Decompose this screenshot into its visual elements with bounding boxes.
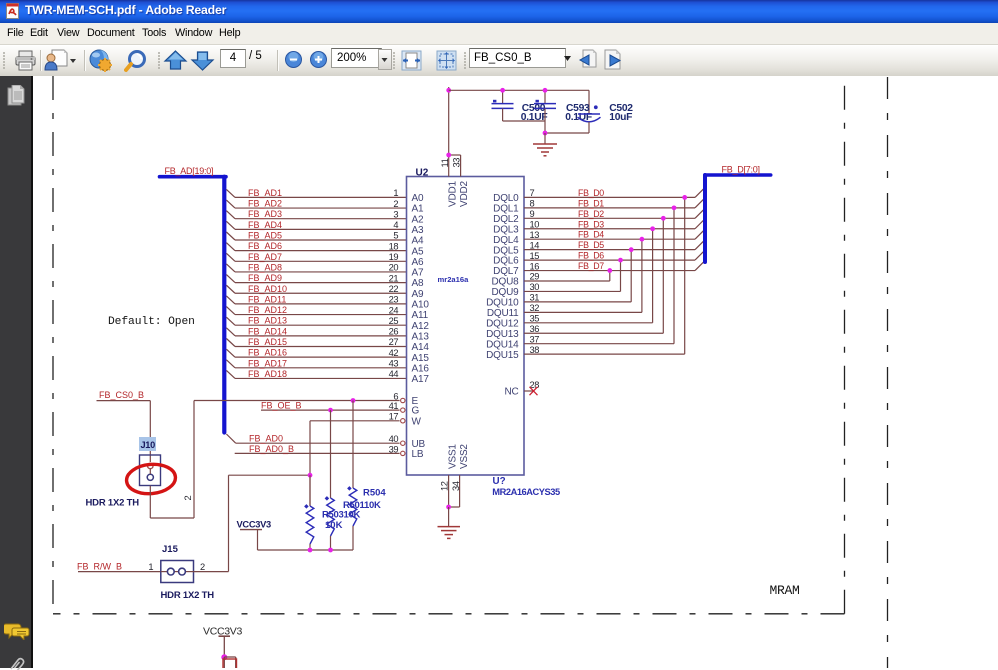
pin number 13 <box>530 230 540 240</box>
capacitor C593 <box>534 90 556 121</box>
pin number 43 <box>389 359 399 369</box>
net label FB_D[7:0] <box>722 164 760 174</box>
svg-text:VDD2: VDD2 <box>459 180 470 207</box>
svg-text:DQL1: DQL1 <box>493 203 519 214</box>
pin name A2 <box>412 214 424 225</box>
wire FB_AD15 bus tap <box>226 339 235 347</box>
wire FB_AD12 bus tap <box>226 307 235 315</box>
svg-text:A3: A3 <box>412 225 424 236</box>
wire FB_R/W_B <box>78 571 161 573</box>
wire W net <box>310 420 400 422</box>
wire FB_AD10 bus tap <box>226 285 235 293</box>
pin name A13 <box>412 331 430 342</box>
pin number 19 <box>389 252 399 262</box>
net label FB_AD10 <box>248 284 287 294</box>
wire FB_AD1 <box>235 196 407 198</box>
no-connect X <box>530 387 538 395</box>
svg-text:DQL4: DQL4 <box>493 235 519 246</box>
svg-text:FB_AD0_B: FB_AD0_B <box>249 444 294 454</box>
svg-text:A5: A5 <box>412 246 424 257</box>
junction cap gnd <box>543 131 548 136</box>
wire FB_AD10 <box>235 292 407 294</box>
wire DQU10 <box>524 301 631 303</box>
pin number 17 <box>389 412 399 422</box>
pin name W <box>412 416 422 427</box>
net label FB_D1 <box>578 198 604 208</box>
pin name DQU10 <box>486 298 519 309</box>
svg-text:W: W <box>412 416 422 427</box>
svg-text:5: 5 <box>393 231 398 241</box>
wire R501 bottom <box>330 536 332 550</box>
wire DQU13 riser <box>662 218 664 333</box>
net label FB_CS0_B <box>99 390 144 400</box>
pin name A8 <box>412 278 424 289</box>
svg-text:25: 25 <box>389 316 399 326</box>
wire FB_D1 bus tap <box>695 198 705 208</box>
pin number 38 <box>530 345 540 355</box>
wire FB_D6 <box>524 259 695 261</box>
wire FB_AD13 bus tap <box>226 317 235 325</box>
svg-text:A0: A0 <box>412 193 424 204</box>
refdes U? <box>493 476 506 487</box>
svg-text:34: 34 <box>451 481 461 491</box>
wire DQU13 <box>524 332 663 334</box>
wire FB_AD4 <box>235 228 407 230</box>
svg-text:LB: LB <box>412 449 424 460</box>
svg-text:G: G <box>412 406 420 417</box>
pin 34 stub VSS2 <box>449 475 460 507</box>
pin name DQU11 <box>487 308 519 319</box>
svg-text:FB_AD0: FB_AD0 <box>249 434 283 444</box>
junction W net <box>308 473 313 478</box>
net label FB_D2 <box>578 209 604 219</box>
sidebar <box>0 76 33 668</box>
svg-text:FB_D6: FB_D6 <box>578 251 604 261</box>
svg-text:44: 44 <box>389 369 399 379</box>
svg-text:1: 1 <box>393 188 398 198</box>
pin number 5 <box>393 231 398 241</box>
net label FB_AD5 <box>248 231 282 241</box>
svg-text:FB_AD9: FB_AD9 <box>248 273 282 283</box>
svg-text:43: 43 <box>389 359 399 369</box>
capacitor C500 <box>492 90 514 121</box>
svg-text:A15: A15 <box>412 353 430 364</box>
wire FB_AD7 bus tap <box>226 253 235 261</box>
connector J10 body <box>140 455 161 486</box>
pin number 20 <box>389 263 399 273</box>
wire FB_AD8 bus tap <box>226 264 235 272</box>
svg-text:FB_AD2: FB_AD2 <box>248 199 282 209</box>
pin number 6 <box>393 391 398 401</box>
pin 33 stub VDD2 <box>449 155 461 177</box>
pin number 33 <box>452 158 462 168</box>
pin name A9 <box>412 289 424 300</box>
pin number 14 <box>530 240 540 250</box>
svg-text:DQU8: DQU8 <box>492 277 520 288</box>
junction VSS <box>446 505 451 510</box>
wire FB_AD8 <box>235 271 407 273</box>
svg-text:16: 16 <box>530 261 540 271</box>
svg-text:33: 33 <box>452 158 462 168</box>
pin name NC <box>504 387 518 398</box>
junction FB_D6 <box>618 258 623 263</box>
svg-text:FB_AD1: FB_AD1 <box>248 188 282 198</box>
pin number 22 <box>389 284 399 294</box>
pin name DQU15 <box>486 350 519 361</box>
svg-text:FB_AD14: FB_AD14 <box>248 326 287 336</box>
wire DQU8 <box>524 280 610 282</box>
pin name VSS1 <box>447 444 458 469</box>
junction FB_D4 <box>640 237 645 242</box>
pin number 2 <box>393 199 398 209</box>
svg-text:42: 42 <box>389 348 399 358</box>
part name mr2a16a <box>438 275 470 284</box>
pin number 4 <box>393 220 398 230</box>
title MRAM <box>770 583 800 598</box>
svg-text:VSS1: VSS1 <box>447 444 458 469</box>
wire R504 bottom <box>352 526 354 550</box>
svg-text:FB_AD18: FB_AD18 <box>248 369 287 379</box>
wire FB_AD1 bus tap <box>226 189 235 197</box>
net label FB_AD15 <box>248 337 287 347</box>
pin name A16 <box>412 363 430 374</box>
net label FB_AD6 <box>248 241 282 251</box>
wire FB_AD2 <box>235 207 407 209</box>
svg-text:Default: Open: Default: Open <box>108 316 195 328</box>
junction FB_D2 <box>661 216 666 221</box>
wire FB_AD0 bus tap <box>226 434 235 443</box>
wire DQU10 riser <box>630 250 632 302</box>
pin number 25 <box>389 316 399 326</box>
wire FB_D1 <box>524 207 695 209</box>
wire to ground <box>448 507 450 526</box>
wire DQU15 riser <box>684 197 686 354</box>
svg-text:32: 32 <box>530 303 540 313</box>
pin bubble G <box>401 408 405 412</box>
wire J10 to E <box>150 401 194 519</box>
wire DQU15 <box>524 353 685 355</box>
pin name G <box>412 406 420 417</box>
title bar <box>0 0 998 23</box>
label C593 <box>565 103 597 123</box>
svg-text:21: 21 <box>389 273 399 283</box>
net label FB_D0 <box>578 188 604 198</box>
svg-text:2: 2 <box>183 495 193 500</box>
pin name A12 <box>412 321 430 332</box>
wire cap rail <box>449 90 589 114</box>
pin name UB <box>412 439 426 450</box>
wire DQU9 riser <box>620 260 622 291</box>
sheet border right <box>844 80 846 614</box>
wire pullup rail <box>258 549 354 551</box>
wire FB_AD0 <box>236 442 400 444</box>
net label FB_D6 <box>578 251 604 261</box>
wire E net <box>194 400 400 402</box>
wire FB_AD3 bus tap <box>226 211 235 219</box>
svg-text:35: 35 <box>530 314 540 324</box>
net label FB_D4 <box>578 230 604 240</box>
pin number 11 <box>440 158 450 167</box>
pin number 12 <box>440 481 450 491</box>
wire FB_D0 <box>524 196 695 198</box>
svg-text:9: 9 <box>530 209 535 219</box>
svg-text:DQU11: DQU11 <box>487 308 519 319</box>
wire FB_AD5 bus tap <box>226 232 235 240</box>
svg-text:1: 1 <box>148 562 153 572</box>
pin number 9 <box>530 209 535 219</box>
wire FB_AD16 <box>235 356 407 358</box>
pin number 2 J15 <box>200 562 205 572</box>
svg-text:31: 31 <box>530 293 540 303</box>
pin number 29 <box>530 272 540 282</box>
svg-text:DQL2: DQL2 <box>493 214 519 225</box>
net label FB_AD16 <box>248 348 287 358</box>
wire FB_AD9 <box>235 282 407 284</box>
svg-text:A10: A10 <box>412 300 430 311</box>
pin bubble W <box>401 419 405 423</box>
svg-text:FB_AD11: FB_AD11 <box>248 294 286 304</box>
pin name LB <box>412 449 424 460</box>
wire FB_AD0_B <box>235 452 400 454</box>
svg-text:FB_D3: FB_D3 <box>578 219 604 229</box>
wire J15 to W <box>194 475 311 571</box>
pin name A5 <box>412 246 424 257</box>
label R501 10K <box>343 500 381 511</box>
wire FB_AD18 <box>235 377 407 379</box>
wire FB_AD18 bus tap <box>226 370 235 378</box>
wire cap bottom rail <box>503 121 589 133</box>
label C502 <box>609 103 633 123</box>
pin name VDD1 <box>447 180 458 207</box>
svg-text:FB_AD3: FB_AD3 <box>248 209 282 219</box>
wire R503 bottom <box>309 544 311 550</box>
wire R501 riser <box>330 410 332 498</box>
pin number 32 <box>530 303 540 313</box>
wire FB_AD17 bus tap <box>226 360 235 368</box>
net label FB_R/W_B <box>77 561 122 571</box>
svg-text:FB_AD6: FB_AD6 <box>248 241 282 251</box>
connector J15 body <box>161 561 194 583</box>
annotation red ellipse <box>125 462 176 495</box>
junction FB_D3 <box>650 226 655 231</box>
pin number 41 <box>389 401 399 411</box>
net label FB_AD9 <box>248 273 282 283</box>
pin number 3 <box>393 209 398 219</box>
junction FB_D1 <box>672 205 677 210</box>
net label FB_AD18 <box>248 369 287 379</box>
part number MR2A16ACYS35 <box>492 487 560 497</box>
svg-text:U2: U2 <box>416 167 429 178</box>
wire FB_AD14 <box>235 335 407 337</box>
label HDR 1X2 TH J10 <box>86 498 140 509</box>
svg-text:FB_AD7: FB_AD7 <box>248 252 282 262</box>
svg-text:29: 29 <box>530 272 540 282</box>
pin number 15 <box>530 251 540 261</box>
pin name VSS2 <box>459 444 470 469</box>
pin number 30 <box>530 282 540 292</box>
wire FB_AD6 <box>235 250 407 252</box>
pin number 36 <box>530 324 540 334</box>
junction R501 top <box>328 408 333 413</box>
net label FB_AD4 <box>248 220 282 230</box>
pin number 35 <box>530 314 540 324</box>
wire FB_AD15 <box>235 346 407 348</box>
pin name DQL6 <box>493 256 519 267</box>
svg-text:DQU9: DQU9 <box>492 287 520 298</box>
pin name A0 <box>412 193 424 204</box>
label HDR 1X2 TH J15 <box>161 590 215 601</box>
svg-text:11: 11 <box>440 158 450 167</box>
svg-text:HDR 1X2 TH: HDR 1X2 TH <box>161 590 215 601</box>
pin name A17 <box>412 374 430 385</box>
svg-text:VCC3V3: VCC3V3 <box>237 519 272 529</box>
svg-text:A16: A16 <box>412 363 430 374</box>
pin name DQL7 <box>493 266 519 277</box>
wire FB_AD3 <box>235 218 407 220</box>
pin number 44 <box>389 369 399 379</box>
wire FB_D2 bus tap <box>695 208 705 218</box>
svg-text:FB_D2: FB_D2 <box>578 209 604 219</box>
note Default: Open <box>108 316 195 328</box>
pin 12 stub VSS1 <box>448 475 450 507</box>
svg-text:DQL0: DQL0 <box>493 193 519 204</box>
wire FB_AD16 bus tap <box>226 349 235 357</box>
wire FB_D3 bus tap <box>695 219 705 229</box>
net label FB_AD12 <box>248 305 287 315</box>
resistor R501 <box>325 496 335 536</box>
junction FB_D0 <box>682 195 687 200</box>
pin name A7 <box>412 268 424 279</box>
wire FB_AD9 bus tap <box>226 275 235 283</box>
svg-text:24: 24 <box>389 305 399 315</box>
refdes J15 <box>162 544 179 555</box>
pin number 16 <box>530 261 540 271</box>
wire FB_CS0_B <box>97 401 151 462</box>
pin number 21 <box>389 273 399 283</box>
wire FB_AD4 bus tap <box>226 221 235 229</box>
pin bubble E <box>401 398 405 402</box>
wire FB_AD6 bus tap <box>226 243 235 251</box>
svg-text:8: 8 <box>530 199 535 209</box>
wire FB_AD14 bus tap <box>226 328 235 336</box>
pin name A6 <box>412 257 424 268</box>
wire FB_AD7 <box>235 260 407 262</box>
pin number 28 <box>530 380 540 390</box>
refdes J10 <box>141 440 156 450</box>
net label FB_AD[19:0] <box>165 166 214 176</box>
wire FB_AD12 <box>235 314 407 316</box>
wire DQU12 <box>524 322 653 324</box>
svg-text:J15: J15 <box>162 544 179 555</box>
wire FB_AD11 bus tap <box>226 296 235 304</box>
junction R504 top <box>351 398 356 403</box>
svg-text:VDD1: VDD1 <box>447 180 458 207</box>
pin name DQU9 <box>492 287 520 298</box>
refdes U2 <box>416 167 429 178</box>
pin name DQU14 <box>486 339 519 350</box>
svg-text:FB_AD5: FB_AD5 <box>248 231 282 241</box>
svg-text:HDR 1X2 TH: HDR 1X2 TH <box>86 498 140 509</box>
svg-text:22: 22 <box>389 284 399 294</box>
pin number 39 <box>389 444 399 454</box>
wire R503 top <box>309 475 311 506</box>
svg-text:DQU15: DQU15 <box>486 350 519 361</box>
svg-text:A17: A17 <box>412 374 430 385</box>
pin number 1 <box>393 188 398 198</box>
capacitor C502 <box>578 90 601 133</box>
pin name A15 <box>412 353 430 364</box>
label R503 10K <box>322 510 360 521</box>
wire DQU14 riser <box>673 208 675 344</box>
svg-text:10: 10 <box>530 219 540 229</box>
pin number 40 <box>389 434 399 444</box>
svg-text:10K: 10K <box>325 520 343 531</box>
svg-text:FB_AD8: FB_AD8 <box>248 262 282 272</box>
pin name VDD2 <box>459 180 470 207</box>
svg-text:A7: A7 <box>412 268 424 279</box>
label R504 <box>363 487 386 498</box>
pin name A3 <box>412 225 424 236</box>
pin number 37 <box>530 334 540 344</box>
pin name DQL5 <box>493 245 519 256</box>
wire FB_D7 bus tap <box>695 261 705 271</box>
wire DQU11 <box>524 311 642 313</box>
ground U2 <box>438 527 461 539</box>
svg-text:VSS2: VSS2 <box>459 444 470 469</box>
pin NC stub <box>524 390 533 392</box>
svg-text:2: 2 <box>200 562 205 572</box>
svg-text:A11: A11 <box>412 310 429 321</box>
svg-text:FB_OE_B: FB_OE_B <box>261 401 302 411</box>
svg-text:37: 37 <box>530 334 540 344</box>
power VCC3V3 <box>237 519 272 550</box>
svg-text:DQL6: DQL6 <box>493 256 519 267</box>
svg-text:15: 15 <box>530 251 540 261</box>
bus FB_AD[19:0] <box>160 177 227 433</box>
net label FB_AD0 <box>249 434 283 444</box>
svg-text:R504: R504 <box>363 487 386 498</box>
svg-text:A4: A4 <box>412 236 424 247</box>
pin number 34 <box>451 481 461 491</box>
svg-text:FB_AD12: FB_AD12 <box>248 305 287 315</box>
pin bubble UB <box>401 441 405 445</box>
net label FB_AD17 <box>248 358 287 368</box>
label 10K R504 <box>325 520 343 531</box>
pin name A14 <box>412 342 430 353</box>
svg-text:R50310K: R50310K <box>322 510 360 521</box>
svg-text:MR2A16ACYS35: MR2A16ACYS35 <box>492 487 560 497</box>
net label FB_AD14 <box>248 326 287 336</box>
junction FB_D5 <box>629 247 634 252</box>
component bottom fragment <box>223 659 237 670</box>
net label FB_AD1 <box>248 188 282 198</box>
wire DQU9 <box>524 290 621 292</box>
pin number 31 <box>530 293 540 303</box>
svg-text:A13: A13 <box>412 331 430 342</box>
svg-text:19: 19 <box>389 252 399 262</box>
pdf app icon <box>5 3 22 20</box>
net label FB_D5 <box>578 240 604 250</box>
wire FB_D0 bus tap <box>695 187 705 197</box>
pin name DQL2 <box>493 214 519 225</box>
svg-text:3: 3 <box>393 209 398 219</box>
svg-text:36: 36 <box>530 324 540 334</box>
svg-text:FB_D1: FB_D1 <box>578 198 604 208</box>
svg-text:27: 27 <box>389 337 399 347</box>
svg-text:A14: A14 <box>412 342 430 353</box>
wire DQU12 riser <box>652 229 654 323</box>
wire FB_AD2 bus tap <box>226 200 235 208</box>
